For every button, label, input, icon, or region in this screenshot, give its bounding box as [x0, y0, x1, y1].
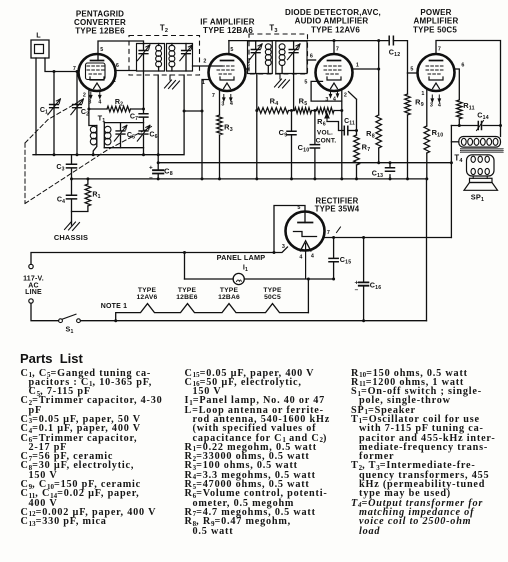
pin 6 label 50C5	[461, 63, 464, 69]
svg-text:L: L	[36, 31, 41, 40]
svg-text:R11: R11	[463, 101, 475, 112]
pin 4 label 50C5	[438, 103, 441, 109]
wire plate line 12BA6 to C12	[229, 40, 388, 42]
terminal AC upper	[29, 264, 33, 268]
svg-text:5: 5	[100, 47, 103, 53]
node dot pin2 column bus	[340, 177, 343, 180]
trimmer cap in T2 primary	[137, 44, 150, 72]
node dot C10 top	[313, 109, 316, 112]
node dot screen right	[499, 124, 502, 127]
wire AVC pin1 lead	[202, 80, 209, 179]
pin 3 heater arrow 50C5	[430, 95, 434, 103]
wire 50C5 plate to T4	[436, 41, 501, 137]
svg-text:R8: R8	[366, 129, 375, 140]
svg-text:R1: R1	[92, 191, 100, 201]
svg-text:12BE6: 12BE6	[176, 294, 198, 301]
ground below T3	[275, 74, 290, 88]
wire 50C5 pin6 screen	[455, 69, 460, 100]
node dot pin5 AC	[273, 251, 276, 254]
label IF amplifier stage	[200, 18, 255, 36]
capacitor C15	[329, 238, 351, 279]
svg-text:C10: C10	[298, 143, 310, 154]
pin 5 label 35W4	[297, 205, 300, 211]
node dot screen R11	[458, 124, 461, 127]
pin 1 label 50C5	[421, 91, 424, 97]
capacitor C3	[56, 155, 76, 179]
transformer T3 primary box	[248, 41, 273, 74]
capacitor C4	[57, 179, 77, 225]
node dot R6 right	[340, 109, 343, 112]
node dot R8 pin1	[377, 68, 380, 71]
svg-text:AUDIO AMPLIFIER: AUDIO AMPLIFIER	[295, 17, 369, 26]
capacitor C16 electrolytic	[355, 238, 382, 321]
svg-text:4: 4	[438, 103, 441, 109]
svg-text:T2: T2	[160, 24, 168, 35]
wire B-plus riser	[450, 126, 452, 238]
wire 12AV6 pin2 column	[341, 101, 343, 179]
node dot R7 bus	[355, 177, 358, 180]
transformer T3 secondary box	[276, 41, 307, 74]
pin 3 label 12AV6	[325, 97, 328, 103]
node dot R7 C11	[355, 129, 358, 132]
parts list column 1	[21, 369, 221, 527]
capacitor C8 electrolytic	[149, 75, 173, 182]
transformer T3 shield dashed box	[249, 34, 308, 74]
svg-text:–: –	[355, 287, 359, 294]
capacitor C7	[130, 71, 148, 131]
resistor R3	[217, 90, 233, 179]
svg-text:T4: T4	[454, 154, 463, 165]
pin 4 label 12AV6	[333, 97, 336, 103]
switch S1	[59, 314, 81, 335]
label note 1	[101, 303, 127, 310]
pin 4 label 35W4 right	[311, 254, 314, 260]
node dot lamp box	[183, 251, 186, 254]
svg-text:6: 6	[310, 54, 313, 60]
wiper arrow R6	[325, 113, 329, 121]
pin 1 label 12BA6	[202, 80, 205, 86]
node dot pin1 bus	[201, 177, 204, 180]
pin 6 label 12AV6	[310, 54, 313, 60]
wire heater riser	[307, 279, 309, 313]
label 117V AC line	[23, 276, 44, 297]
label pentagrid converter stage	[74, 10, 126, 36]
wire 12AV6 pin1 stub	[352, 68, 378, 70]
svg-text:TYPE: TYPE	[178, 287, 197, 294]
node dot C15 top	[332, 236, 335, 239]
wire AC return bottom	[31, 303, 427, 321]
svg-text:7: 7	[438, 47, 441, 53]
svg-text:6: 6	[116, 63, 119, 69]
svg-text:TYPE 50C5: TYPE 50C5	[413, 26, 457, 35]
node dot pin7 line	[333, 39, 336, 42]
transformer T1 oscillator coil	[90, 114, 111, 155]
wire B-plus bus	[158, 162, 451, 164]
wire heater chain	[116, 304, 309, 321]
wire antenna to 12BE6 grid	[45, 58, 79, 72]
capacitor C6 trimmer	[137, 125, 157, 154]
terminal AC lower	[29, 299, 33, 303]
svg-text:7: 7	[336, 47, 339, 53]
tube 12AV6	[316, 54, 353, 91]
svg-text:TYPE: TYPE	[220, 287, 239, 294]
label heater 50C5	[263, 287, 282, 301]
svg-text:R5: R5	[299, 97, 308, 108]
resistor R8	[366, 41, 381, 163]
svg-text:R10: R10	[432, 128, 444, 139]
wire B-plus from pin7	[324, 237, 451, 239]
node dots on RF return line	[53, 153, 160, 156]
svg-text:4: 4	[311, 254, 314, 260]
svg-text:6: 6	[461, 63, 464, 69]
pin 3 heater arrow 12BA6	[222, 95, 226, 103]
ground below T2	[165, 75, 180, 89]
pin 7 label 12AV6	[336, 47, 339, 53]
svg-text:C11: C11	[344, 118, 355, 127]
transformer T4 primary	[451, 137, 500, 148]
resistor R6 volume control	[312, 108, 342, 145]
transformer T4 core	[461, 148, 504, 153]
svg-text:R4: R4	[270, 97, 279, 108]
pin 3 label 12BA6	[221, 102, 224, 108]
svg-text:1: 1	[113, 78, 116, 84]
speaker SP1	[464, 178, 498, 203]
transformer T3 label	[269, 24, 277, 35]
svg-text:TYPE 12BA6: TYPE 12BA6	[203, 26, 253, 35]
svg-text:5: 5	[304, 80, 307, 86]
svg-text:R7: R7	[362, 143, 371, 154]
node dot C13 top	[389, 161, 392, 164]
svg-text:50C5: 50C5	[264, 294, 281, 301]
svg-text:C3: C3	[56, 163, 64, 173]
wire T1 top link	[104, 122, 143, 124]
svg-text:C4: C4	[57, 196, 65, 206]
svg-text:SP1: SP1	[471, 193, 484, 204]
tube 12BE6	[79, 54, 116, 91]
node dot C16 top	[362, 236, 365, 239]
svg-text:C1: C1	[40, 106, 48, 116]
svg-text:PANEL LAMP: PANEL LAMP	[217, 253, 266, 262]
label heater 12AV6	[137, 287, 158, 301]
svg-text:I1: I1	[243, 263, 248, 274]
pin 7 label 50C5	[438, 47, 441, 53]
pin 2 label 12BA6	[203, 59, 206, 65]
node dot lamp line end	[332, 278, 335, 281]
wire panel lamp line	[185, 278, 334, 280]
transformer T4 label	[454, 154, 463, 165]
chassis ground	[54, 222, 88, 243]
svg-text:12AV6: 12AV6	[137, 294, 158, 301]
pin 1 label 12AV6	[356, 63, 359, 69]
node dot C8 bottom	[157, 177, 160, 180]
resistor R1	[72, 179, 101, 212]
node dot R9 bus	[406, 177, 409, 180]
node dot C1 top	[53, 70, 56, 73]
transformer T2 label	[160, 24, 168, 35]
pin 7 label 35W4	[327, 230, 330, 236]
wire AC hot line	[31, 247, 288, 264]
pin 4 heater arrow 12BE6	[98, 92, 102, 100]
transformer T4 secondary	[467, 155, 495, 176]
svg-text:–: –	[149, 175, 153, 182]
pin 3 heater arrow 12BE6	[89, 92, 93, 100]
node dot C16 bottom	[362, 319, 365, 322]
trimmer cap in T2 secondary	[180, 44, 193, 72]
label diode detector stage	[285, 8, 381, 35]
parts list title	[20, 351, 83, 366]
pin 3 heater arrow 12AV6	[329, 92, 333, 99]
pin 3 label 50C5	[430, 103, 433, 109]
transformer T2 primary box	[137, 44, 165, 72]
svg-text:3: 3	[221, 102, 224, 108]
label panel lamp	[217, 253, 266, 273]
svg-text:TYPE 35W4: TYPE 35W4	[315, 205, 360, 214]
tube 50C5	[418, 54, 455, 91]
svg-text:117-V.: 117-V.	[23, 276, 44, 283]
svg-text:C14: C14	[477, 111, 489, 122]
svg-text:NOTE 1: NOTE 1	[101, 303, 127, 310]
pin 3 label 35W4	[282, 244, 285, 250]
svg-text:4: 4	[299, 255, 302, 261]
resistor R7	[349, 92, 371, 179]
node dot C13 bottom	[389, 177, 392, 180]
wire 50C5 grid stub	[408, 72, 418, 74]
pin 7 label 12BA6	[212, 93, 215, 99]
svg-text:5: 5	[410, 67, 413, 73]
node dot R4 left bus	[255, 177, 258, 180]
wire 12AV6 grid U-link	[311, 81, 342, 101]
svg-text:VOL.: VOL.	[317, 130, 333, 137]
node dot heater riser	[307, 278, 310, 281]
resistor R5	[295, 97, 312, 114]
wire T4 secondary to speaker	[473, 176, 487, 178]
svg-text:C16: C16	[370, 281, 382, 292]
node dot R2 right	[142, 108, 145, 111]
svg-text:7: 7	[73, 66, 76, 72]
wire lower AVC bus	[72, 178, 427, 180]
label heater 12BE6	[176, 287, 198, 301]
node dot C3 bus	[70, 177, 73, 180]
svg-text:R6: R6	[317, 117, 326, 128]
svg-text:C13: C13	[372, 170, 383, 180]
pin 7 label 12BE6	[73, 66, 76, 72]
wire antenna outer lead down	[35, 58, 37, 155]
svg-text:2: 2	[83, 93, 86, 99]
svg-text:+: +	[149, 165, 153, 172]
capacitor C14	[477, 111, 489, 131]
svg-text:3: 3	[430, 103, 433, 109]
wire 12BA6 pin6 stub	[245, 68, 249, 70]
trimmer cap in T3 secondary	[287, 41, 300, 74]
pin 4 heater arrow 50C5	[437, 95, 441, 103]
node dot R10 bus corner	[425, 177, 428, 180]
svg-text:C7: C7	[130, 113, 138, 123]
svg-text:7: 7	[327, 230, 330, 236]
svg-text:1: 1	[356, 63, 359, 69]
transformer T2 secondary box	[167, 44, 193, 72]
pin 5 label 12AV6	[304, 80, 307, 86]
wire screen line	[451, 125, 500, 127]
wire T2 secondary to 12BA6 grid	[193, 65, 223, 67]
svg-text:C5: C5	[127, 131, 135, 141]
svg-text:AMPLIFIER: AMPLIFIER	[414, 17, 459, 26]
resistor R10	[424, 89, 443, 179]
coil T2 primary	[156, 44, 162, 72]
svg-text:C8: C8	[164, 167, 173, 178]
parts list column 2	[185, 369, 385, 536]
parts list column 3	[351, 369, 508, 536]
svg-text:LINE: LINE	[25, 289, 42, 296]
pin 2 label 12BE6	[83, 93, 86, 99]
svg-text:R3: R3	[224, 123, 233, 134]
node dot R1 bus	[86, 177, 89, 180]
coil T2 secondary	[169, 44, 175, 72]
dashed gang linkage diagonal	[25, 126, 153, 204]
tick mark at 35W4 pin7	[337, 227, 341, 233]
wire AVC bus to AC return	[426, 179, 428, 321]
label power amplifier stage	[413, 8, 458, 35]
wire 12BE6 pin6 to T2 primary	[116, 70, 137, 72]
pin 3 label 12BE6	[88, 100, 91, 106]
coil T3 secondary	[279, 44, 285, 74]
pin 5 label 12BA6	[230, 47, 233, 53]
node dot C2 top	[76, 70, 79, 73]
capacitor C1	[40, 72, 61, 155]
trimmer cap in T3 primary	[250, 41, 263, 74]
resistor R4	[257, 97, 295, 114]
svg-text:C6: C6	[149, 131, 157, 141]
node dot C10 bus	[313, 177, 316, 180]
node dot C8 top	[157, 161, 160, 164]
svg-text:T3: T3	[269, 24, 277, 35]
svg-text:TYPE: TYPE	[138, 287, 157, 294]
tube 12BA6	[209, 54, 246, 91]
capacitor C9	[279, 111, 296, 179]
svg-text:TYPE 12BE6: TYPE 12BE6	[75, 27, 125, 36]
pin 1 label 12BE6	[113, 78, 116, 84]
antenna L	[31, 31, 49, 59]
wire C12 to 50C5 grid	[393, 41, 407, 73]
node dot R3 bus	[218, 177, 221, 180]
svg-text:C15: C15	[340, 255, 352, 266]
svg-text:4: 4	[98, 100, 101, 106]
dashed gang linkage vertical	[24, 143, 26, 204]
svg-text:TYPE 12AV6: TYPE 12AV6	[311, 26, 360, 35]
pin 5 label 12BE6	[100, 47, 103, 53]
capacitor C5 trimmer	[114, 123, 135, 148]
pin 6 label 12BA6	[247, 62, 250, 68]
svg-text:R9: R9	[415, 98, 424, 109]
label heater 12BA6	[218, 287, 240, 301]
svg-text:CHASSIS: CHASSIS	[54, 233, 88, 242]
capacitor C2	[71, 72, 89, 155]
svg-text:7: 7	[212, 93, 215, 99]
pin 5 label 50C5	[410, 67, 413, 73]
pin 4 label 12BA6	[230, 101, 233, 107]
node dot R2 left	[87, 108, 90, 111]
pin 4 heater arrow 12BA6	[229, 95, 233, 103]
svg-text:CONT.: CONT.	[316, 138, 337, 145]
heater arrow 35W4	[300, 241, 311, 279]
coil T3 primary	[265, 44, 271, 74]
node dot AVC branch	[183, 110, 204, 113]
capacitor C11	[344, 118, 356, 135]
node dot C9 bus	[290, 177, 293, 180]
wire R4 left column	[256, 74, 258, 179]
wire 12BE6 pin2 cathode lead	[89, 89, 97, 126]
dashed gang linkage left	[25, 101, 80, 143]
pin 4 heater arrow 12AV6	[336, 92, 340, 99]
panel lamp I1	[233, 273, 244, 284]
capacitor C12	[389, 36, 401, 58]
pin 4 label 12BE6	[98, 100, 101, 106]
svg-text:5: 5	[230, 47, 233, 53]
node dot C9 top	[290, 109, 293, 112]
wire T1 bottom link	[104, 147, 143, 149]
wire RF return line	[33, 75, 184, 155]
resistor R11	[457, 100, 475, 126]
svg-text:3: 3	[325, 97, 328, 103]
svg-text:S1: S1	[65, 325, 73, 336]
wire 35W4 pin5 to AC line	[274, 206, 305, 253]
resistor R9	[405, 73, 424, 179]
pin 4 label 35W4 left	[299, 255, 302, 261]
svg-text:TYPE: TYPE	[263, 287, 282, 294]
svg-text:2: 2	[203, 59, 206, 65]
wire T3 secondary to 12AV6	[307, 59, 316, 61]
wire T3 trimmer to detector	[293, 74, 295, 111]
wire AVC branch	[184, 110, 202, 112]
tube 35W4 rectifier	[286, 212, 325, 251]
resistor R2	[89, 98, 144, 112]
pin 2 label 12AV6	[344, 93, 347, 99]
wire 12BE6 plate pin5 to T2	[98, 41, 144, 61]
capacitor C13	[372, 163, 395, 180]
svg-text:1: 1	[421, 91, 424, 97]
node dot bus end	[450, 161, 453, 164]
label rectifier stage	[315, 197, 360, 214]
node dot R8 top	[377, 39, 380, 42]
svg-text:C12: C12	[389, 48, 401, 59]
capacitor C10	[298, 111, 320, 179]
svg-text:2: 2	[344, 93, 347, 99]
svg-text:12BA6: 12BA6	[218, 294, 240, 301]
node dot heater chain AC	[114, 319, 117, 322]
wire panel lamp box left	[184, 253, 186, 280]
node dot R4 left	[255, 109, 258, 112]
pin 6 label 12BE6	[116, 63, 119, 69]
transformer T2 shield dashed box	[129, 36, 200, 76]
node dot R8 bus	[377, 161, 380, 164]
wire wiper to C11	[327, 122, 344, 131]
svg-text:4: 4	[230, 101, 233, 107]
wire 12BA6 pin5 lead	[228, 41, 230, 55]
wire 12AV6 pin7 lead	[333, 41, 335, 55]
svg-text:C9: C9	[279, 128, 288, 139]
svg-text:+: +	[355, 280, 359, 287]
